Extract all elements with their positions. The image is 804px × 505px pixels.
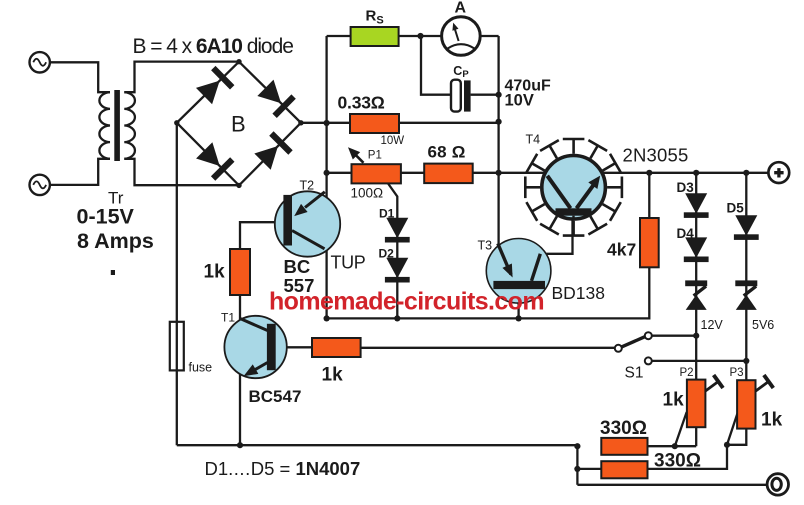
svg-text:A: A (455, 0, 467, 17)
svg-text:P3: P3 (730, 367, 744, 379)
svg-text:10V: 10V (505, 92, 534, 110)
svg-text:D1: D1 (379, 207, 395, 221)
svg-text:P2: P2 (680, 367, 694, 379)
svg-text:P1: P1 (368, 150, 382, 162)
svg-text:T1: T1 (221, 311, 235, 325)
svg-text:T3: T3 (478, 239, 493, 253)
svg-text:D3: D3 (677, 180, 695, 195)
svg-text:S1: S1 (625, 365, 644, 382)
svg-text:B: B (231, 112, 246, 137)
svg-text:1k: 1k (322, 365, 344, 386)
svg-text:10W: 10W (381, 135, 405, 147)
svg-text:homemade-circuits.com: homemade-circuits.com (269, 288, 544, 316)
svg-text:100Ω: 100Ω (351, 186, 384, 201)
svg-text:4k7: 4k7 (607, 240, 636, 260)
svg-text:1k: 1k (761, 410, 783, 431)
svg-text:0-15V: 0-15V (77, 205, 135, 229)
svg-text:T4: T4 (526, 133, 541, 147)
svg-text:68 Ω: 68 Ω (428, 143, 466, 162)
svg-text:5V6: 5V6 (752, 318, 774, 332)
svg-text:0.33Ω: 0.33Ω (338, 93, 385, 113)
svg-text:BD138: BD138 (552, 283, 606, 303)
svg-text:B = 4 x 6A10 diode: B = 4 x 6A10 diode (133, 35, 294, 58)
svg-text:12V: 12V (701, 318, 724, 332)
svg-text:1k: 1k (663, 390, 685, 411)
svg-text:330Ω: 330Ω (600, 418, 647, 439)
svg-text:2N3055: 2N3055 (623, 145, 689, 166)
svg-text:1k: 1k (204, 262, 226, 283)
svg-text:330Ω: 330Ω (654, 450, 701, 471)
svg-text:D5: D5 (727, 201, 745, 216)
svg-text:TUP: TUP (331, 253, 366, 273)
svg-text:fuse: fuse (189, 361, 213, 375)
svg-text:T2: T2 (300, 179, 315, 193)
svg-text:D4: D4 (677, 226, 695, 241)
svg-text:D2: D2 (379, 247, 395, 261)
svg-text:D1....D5 = 1N4007: D1....D5 = 1N4007 (205, 458, 361, 479)
svg-text:8 Amps: 8 Amps (77, 229, 154, 253)
svg-text:BC: BC (284, 256, 311, 277)
svg-text:BC547: BC547 (249, 387, 302, 406)
